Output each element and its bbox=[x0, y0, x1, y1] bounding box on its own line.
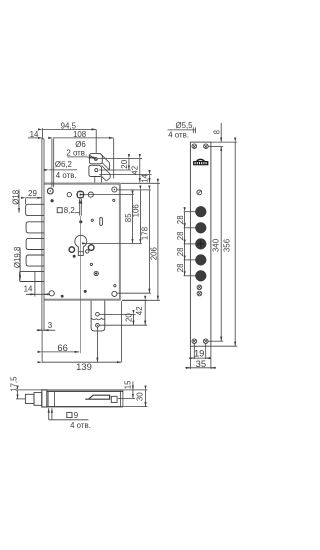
ring left of cylinder bbox=[69, 247, 74, 252]
label square 9, 4 отв. bbox=[49, 408, 91, 430]
square hole 9 bbox=[111, 396, 117, 402]
cylinder profile cutout bbox=[75, 235, 87, 255]
tab centerline to 139 dim bbox=[96, 327, 98, 362]
dim 356 bbox=[212, 142, 238, 346]
top screw left bbox=[192, 144, 197, 149]
dim 42 latch to case bbox=[131, 159, 142, 183]
svg-text:8: 8 bbox=[213, 129, 222, 134]
svg-text:14: 14 bbox=[30, 130, 39, 139]
ext bottom hole row bbox=[118, 292, 151, 294]
deadbolt 1 bbox=[26, 204, 45, 215]
latch pictorial lower prism bbox=[89, 165, 110, 182]
dim 35 bottom bbox=[185, 347, 216, 369]
svg-text:108: 108 bbox=[73, 130, 87, 139]
dim 29 bolt bbox=[26, 189, 43, 204]
screw hole bottom-left (Ø6,2) bbox=[49, 291, 54, 296]
dim 8 top bbox=[208, 123, 237, 151]
svg-text:28: 28 bbox=[176, 263, 185, 272]
dim 19 bottom bbox=[189, 344, 211, 359]
logo ELBOR bbox=[193, 159, 208, 166]
dim 20 tab holes bbox=[99, 313, 147, 326]
svg-text:Ø19,8: Ø19,8 bbox=[13, 246, 22, 268]
svg-text:29: 29 bbox=[28, 189, 37, 198]
dim 108 top bbox=[53, 130, 114, 178]
svg-text:4 отв.: 4 отв. bbox=[70, 421, 91, 430]
deadbolt 3 bbox=[26, 238, 44, 249]
svg-text:14: 14 bbox=[140, 173, 149, 182]
ext case bottom right bbox=[124, 406, 148, 408]
lower screw 1 bbox=[197, 285, 202, 290]
leader arrow to latch hole bbox=[89, 155, 97, 160]
dim 14 top-left bbox=[28, 130, 42, 139]
svg-text:2 отв.: 2 отв. bbox=[66, 149, 87, 158]
dim 30 bbox=[136, 390, 146, 407]
bottom screw right bbox=[203, 339, 208, 344]
dim 3 plate thickness bbox=[37, 321, 55, 330]
dot below-left of cylinder bbox=[73, 255, 76, 258]
label Ø5,5 4 отв. bbox=[168, 121, 196, 139]
svg-text:42: 42 bbox=[135, 306, 144, 315]
small ring right of cylinder bbox=[86, 250, 89, 253]
dot lower middle bbox=[95, 272, 97, 274]
svg-text:14: 14 bbox=[24, 285, 33, 294]
bottom tab bbox=[91, 301, 105, 331]
label Ø18 bbox=[12, 189, 21, 213]
screw dot below follower bbox=[79, 220, 82, 223]
ext square hole row bbox=[118, 397, 135, 399]
svg-text:106: 106 bbox=[132, 204, 141, 218]
ring left of follower bbox=[67, 192, 71, 196]
center axis line bbox=[80, 216, 82, 353]
ext follower row bbox=[84, 194, 134, 196]
small ring below top-right bbox=[113, 199, 115, 201]
svg-text:Ø6,2: Ø6,2 bbox=[55, 160, 72, 169]
svg-text:17,5: 17,5 bbox=[9, 376, 18, 392]
top screw right bbox=[204, 144, 209, 149]
svg-text:4 отв.: 4 отв. bbox=[168, 130, 189, 139]
dim 66 backset bbox=[42, 331, 79, 362]
lower auxiliary bolt bbox=[20, 271, 45, 281]
svg-text:4 отв.: 4 отв. bbox=[56, 171, 77, 180]
label Ø6 2 отв. bbox=[66, 140, 93, 158]
svg-text:178: 178 bbox=[140, 226, 149, 240]
dim 14 latch bottom bbox=[99, 173, 151, 182]
dim 17,5 bbox=[9, 376, 25, 399]
dim 139 case width bbox=[42, 301, 121, 372]
side view faceplate bar bbox=[42, 390, 47, 407]
screw hole bottom-right (Ø6,2) bbox=[112, 291, 117, 296]
dot bottom center bbox=[84, 290, 87, 293]
bottom screw left bbox=[192, 339, 197, 344]
bolt hole 2 bbox=[184, 222, 207, 233]
latch pictorial upper prism bbox=[89, 154, 109, 170]
dot bottom left bbox=[61, 295, 64, 298]
svg-text:42: 42 bbox=[131, 166, 140, 175]
ext case top right bbox=[121, 182, 160, 184]
screw hole top-right (Ø6,2) bbox=[112, 187, 117, 192]
tab hole lower bbox=[96, 324, 100, 328]
svg-text:8,2: 8,2 bbox=[64, 206, 75, 215]
svg-text:340: 340 bbox=[212, 238, 221, 252]
svg-text:28: 28 bbox=[176, 231, 185, 240]
bolt hole 1 bbox=[184, 206, 207, 217]
label Ø6,2 4 отв. bbox=[49, 139, 77, 188]
dim 178 bbox=[140, 190, 149, 293]
dim 94,5 top bbox=[42, 122, 96, 153]
upper screw bbox=[197, 190, 202, 195]
svg-text:3: 3 bbox=[48, 321, 53, 330]
svg-text:139: 139 bbox=[76, 361, 92, 372]
ext case bottom right bbox=[122, 299, 160, 301]
tiny ring lower middle bbox=[90, 263, 92, 265]
svg-text:66: 66 bbox=[57, 342, 67, 353]
side view case bbox=[47, 390, 123, 407]
latch hole upper (Ø6) bbox=[94, 157, 97, 160]
label Ø19,8 bbox=[13, 246, 22, 280]
svg-text:20: 20 bbox=[125, 313, 134, 322]
svg-text:206: 206 bbox=[149, 247, 158, 261]
deadbolt 2 bbox=[26, 222, 44, 233]
svg-text:28: 28 bbox=[176, 215, 185, 224]
dim 206 bbox=[149, 183, 158, 300]
dim 106 bbox=[132, 190, 141, 244]
dim 85 bbox=[124, 195, 133, 243]
svg-text:9: 9 bbox=[74, 411, 79, 420]
dim 15 bbox=[123, 380, 133, 398]
ext cylinder axis bbox=[87, 242, 142, 244]
svg-text:30: 30 bbox=[136, 392, 145, 401]
svg-text:35: 35 bbox=[196, 358, 206, 369]
ext top hole row bbox=[118, 189, 151, 191]
tiny ring bbox=[91, 219, 93, 221]
svg-text:356: 356 bbox=[222, 238, 231, 252]
latch hole lower (Ø6) bbox=[95, 169, 98, 172]
side view bolt bbox=[25, 393, 41, 406]
tab hole upper bbox=[96, 312, 100, 316]
faceplate strip (edge-on) bbox=[42, 139, 44, 331]
svg-text:20: 20 bbox=[120, 159, 129, 168]
bolt hole 5 bbox=[184, 270, 207, 281]
bolt hole 4 bbox=[184, 255, 207, 266]
deadbolt 4 bbox=[26, 255, 44, 266]
faceplate front view bbox=[190, 142, 211, 346]
small ring above bottom-right bbox=[114, 285, 116, 287]
slanted slot bbox=[85, 395, 109, 399]
svg-text:15: 15 bbox=[123, 380, 132, 389]
handle follower with square 8,2 bbox=[77, 191, 84, 198]
dim 340 bbox=[208, 147, 223, 342]
dim 28 spacings bbox=[176, 212, 185, 276]
lock case body bbox=[44, 183, 120, 300]
dim 14 lower-left bbox=[24, 282, 50, 297]
svg-text:Ø5,5: Ø5,5 bbox=[175, 121, 193, 130]
lower screw 2 bbox=[197, 291, 202, 296]
label square 8,2 bbox=[57, 199, 81, 216]
bolt hole 3 bbox=[184, 239, 207, 250]
ext plate top long bbox=[18, 389, 148, 391]
dim 20 latch holes bbox=[98, 159, 131, 171]
screw hole top-left (Ø6,2) bbox=[47, 188, 53, 194]
ring right of follower bbox=[88, 192, 93, 197]
dim 42 tab bbox=[122, 300, 147, 325]
svg-text:28: 28 bbox=[176, 247, 185, 256]
screw dot below bbox=[51, 199, 54, 202]
vertical slot bbox=[100, 218, 103, 226]
ring right of cylinder bbox=[88, 245, 94, 251]
